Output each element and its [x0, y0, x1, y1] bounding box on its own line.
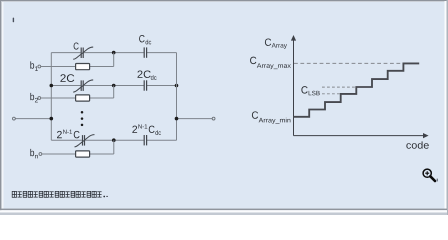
- wire b2: [41, 86, 114, 99]
- schematic labels: [30, 35, 161, 158]
- staircase curve: [293, 63, 419, 116]
- switch box S2: [76, 95, 90, 101]
- junction right bus / terminal: [175, 117, 179, 121]
- capacitor 2^(N-1)C (trimmer): [75, 135, 95, 147]
- label C_Array_min (Array_min): [259, 118, 291, 124]
- switch box Sn: [76, 151, 90, 157]
- capacitor 2^(N-1)Cdc: [144, 135, 146, 145]
- wire branch1 top: [51, 52, 176, 54]
- label b2 (b): [30, 93, 34, 100]
- x axis: [294, 135, 425, 137]
- label code: [406, 141, 428, 148]
- capacitor 2C (trimmer): [73, 80, 93, 92]
- right bus wire: [176, 53, 178, 141]
- wire right-terminal: [177, 118, 213, 120]
- label 2C: [60, 74, 74, 82]
- label 2^(N-1)C (2): [57, 131, 62, 138]
- label b2 (2): [35, 98, 38, 103]
- label Cdc (C): [139, 35, 144, 42]
- label 2Cdc (2C): [137, 70, 150, 77]
- y axis arrowhead: [291, 35, 296, 41]
- terminal b2: [38, 97, 41, 100]
- capacitor 2Cdc: [144, 80, 146, 90]
- label bn (n): [35, 155, 38, 159]
- label 2^(N-1)C (C): [74, 131, 80, 138]
- junction node branch1: [112, 51, 116, 55]
- label 2^(N-1)Cdc (N-1): [138, 124, 147, 128]
- label C_Array (Array): [272, 43, 287, 49]
- label C_Array_max (C): [250, 57, 256, 64]
- dashed line C_Array_max: [294, 62, 401, 64]
- x axis arrowhead: [423, 133, 429, 138]
- terminal bn: [39, 153, 42, 156]
- dashed line C_LSB upper: [322, 86, 356, 88]
- ellipsis dots: [81, 111, 84, 126]
- capacitor Cdc1: [144, 47, 146, 57]
- page number mark: [13, 18, 14, 23]
- label 2^(N-1)Cdc (C): [149, 126, 155, 133]
- label C: [74, 43, 79, 50]
- terminal b1: [38, 65, 41, 68]
- wire branch2 top: [51, 85, 176, 87]
- label 2^(N-1)C (N-1): [63, 130, 72, 134]
- label 2^(N-1)Cdc (2): [132, 126, 137, 133]
- left input terminal: [13, 117, 16, 120]
- capacitor C (trimmer): [73, 47, 93, 59]
- label bn (b): [30, 149, 34, 156]
- dashed line C_LSB lower: [322, 93, 341, 95]
- junction left bus branch2: [50, 84, 54, 88]
- label b1 (1): [35, 66, 38, 70]
- label C_Array_max (Array_max): [257, 63, 291, 69]
- label b1 (b): [30, 61, 34, 68]
- label Cdc (dc): [146, 40, 152, 45]
- right output terminal: [212, 117, 215, 120]
- caption text (Chinese, drawn as glyph marks): [12, 191, 108, 197]
- junction left bus / terminal: [50, 117, 54, 121]
- wire bn: [42, 140, 114, 154]
- y axis: [293, 39, 295, 136]
- label 2Cdc (dc): [151, 75, 157, 80]
- chart labels: [250, 38, 429, 148]
- junction right bus branch2: [175, 84, 179, 88]
- wire b1: [41, 53, 114, 67]
- junction node branchN: [112, 138, 116, 142]
- label 2^(N-1)Cdc (dc): [155, 130, 161, 135]
- label C_Array_min (C): [252, 111, 258, 118]
- wire branchN top: [51, 139, 176, 141]
- label C_LSB (C): [301, 86, 307, 93]
- left bus wire: [50, 53, 52, 141]
- label C_Array (C): [265, 38, 271, 45]
- switch box S1: [76, 64, 90, 70]
- label C_LSB (LSB): [309, 91, 320, 96]
- zoom-in icon: [423, 169, 437, 181]
- junction node branch2: [112, 84, 116, 88]
- node left-terminal wire: [15, 118, 51, 120]
